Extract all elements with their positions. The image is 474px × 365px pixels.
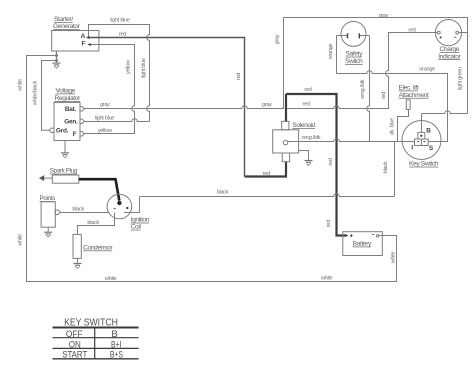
svg-text:red: red — [236, 73, 242, 80]
svg-text:dk. blue: dk. blue — [390, 118, 396, 135]
svg-text:Starter/: Starter/ — [54, 16, 73, 23]
svg-text:gray: gray — [100, 102, 110, 108]
svg-text:F: F — [82, 40, 86, 47]
svg-text:white: white — [17, 234, 23, 247]
charge indicator — [435, 19, 467, 60]
svg-text:white: white — [390, 252, 396, 265]
wire black coil plus riser — [124, 197, 140, 213]
svg-text:B: B — [426, 127, 431, 134]
svg-text:light green: light green — [458, 67, 464, 90]
elec lift attachment — [399, 85, 429, 110]
key switch table — [53, 317, 139, 360]
ground SG — [53, 63, 61, 68]
wire white left loop to battery minus — [27, 56, 397, 282]
svg-text:Safety: Safety — [346, 51, 364, 58]
wire SG ground stub — [56, 51, 58, 63]
wire spark plug thick black — [79, 179, 120, 200]
svg-text:white: white — [104, 276, 117, 282]
svg-text:Points: Points — [40, 195, 56, 202]
svg-text:white: white — [18, 79, 24, 92]
wire F yellow — [84, 45, 135, 134]
wire light blue top loop — [89, 25, 150, 122]
wire white/black to VR Grd — [42, 61, 57, 131]
solenoid — [273, 121, 316, 161]
svg-text:gray: gray — [262, 102, 272, 108]
svg-text:white/black: white/black — [33, 80, 39, 106]
points — [40, 195, 61, 227]
terminal tag Grd — [49, 128, 54, 132]
svg-text:F: F — [73, 131, 77, 138]
battery — [343, 232, 383, 256]
svg-text:Battery: Battery — [353, 241, 372, 248]
node junction white — [55, 54, 58, 57]
svg-text:red: red — [408, 27, 415, 33]
voltage regulator VR — [54, 88, 81, 141]
safety switch — [337, 21, 370, 65]
terminal arrow A — [86, 36, 89, 39]
wire orange safety left side — [336, 36, 338, 74]
wire red from A — [89, 38, 245, 177]
svg-text:orng./blk: orng./blk — [302, 135, 321, 141]
svg-text:Bat.: Bat. — [65, 106, 77, 113]
svg-text:black: black — [87, 220, 99, 226]
svg-text:START: START — [62, 350, 87, 361]
wire orange bottom to key switch S — [337, 71, 448, 142]
wire black points to coil — [61, 212, 110, 214]
wire black coil to condenser — [78, 213, 115, 235]
svg-text:light blue: light blue — [110, 18, 130, 24]
svg-text:Indicator: Indicator — [438, 53, 461, 60]
wire red thick battery feed — [286, 94, 346, 236]
ground condenser — [77, 259, 79, 263]
terminal arrow battery plus — [345, 234, 348, 237]
svg-text:gray: gray — [275, 34, 281, 44]
svg-text:red: red — [381, 92, 387, 99]
wire light blue to Gen with hop over yellow — [84, 119, 150, 122]
ground solenoid — [299, 151, 309, 161]
svg-text:Condensor: Condensor — [83, 245, 113, 252]
svg-text:yellow: yellow — [98, 128, 113, 134]
svg-text:gray: gray — [379, 13, 389, 19]
svg-text:Attachment: Attachment — [399, 92, 429, 99]
wire orange/black safety right down — [367, 36, 370, 142]
wire red solenoid to charge indicator — [287, 33, 437, 109]
svg-text:Voltage: Voltage — [56, 88, 76, 95]
wire orange/black solenoid to key switch I — [288, 139, 415, 142]
svg-text:light blue: light blue — [141, 58, 147, 78]
svg-text:A: A — [81, 33, 86, 40]
terminal tag Gen — [80, 119, 84, 123]
svg-text:Gen.: Gen. — [64, 119, 78, 126]
svg-text:yellow: yellow — [126, 59, 132, 74]
terminal tag F — [80, 132, 84, 136]
svg-text:red: red — [326, 220, 332, 227]
svg-text:OFF: OFF — [66, 329, 83, 340]
starter/generator SG — [52, 16, 99, 51]
ignition coil — [107, 194, 150, 231]
svg-text:red: red — [303, 102, 310, 108]
svg-text:Generator: Generator — [53, 23, 81, 30]
svg-text:Ignition: Ignition — [131, 217, 150, 224]
svg-text:Solenoid: Solenoid — [292, 122, 316, 129]
svg-text:red: red — [304, 87, 311, 93]
svg-text:red: red — [263, 171, 270, 177]
node junction white/black — [55, 59, 58, 62]
wire red thick to solenoid bottom — [245, 162, 287, 177]
svg-text:white: white — [320, 275, 333, 281]
svg-text:black: black — [72, 207, 84, 213]
condenser — [73, 234, 113, 258]
svg-text:Grd.: Grd. — [56, 128, 69, 135]
svg-text:black: black — [217, 190, 229, 196]
ground points — [47, 227, 49, 232]
wire black key switch to coil — [140, 142, 395, 197]
svg-text:Coil: Coil — [131, 224, 142, 231]
terminal arrow F — [87, 43, 90, 46]
svg-text:light blue: light blue — [95, 115, 115, 121]
svg-text:B: B — [111, 329, 117, 340]
svg-text:red: red — [328, 158, 334, 165]
svg-text:Regulator: Regulator — [55, 95, 82, 102]
svg-text:black: black — [383, 161, 389, 173]
wire gray bus VR Bat to top right — [84, 18, 467, 114]
svg-text:B+S: B+S — [110, 350, 123, 361]
svg-text:orng./blk: orng./blk — [360, 79, 366, 98]
svg-text:Switch: Switch — [345, 58, 363, 65]
key switch — [402, 121, 441, 168]
svg-text:Elec. lift: Elec. lift — [399, 85, 419, 92]
wire light green to key switch B — [422, 111, 468, 133]
svg-text:orange: orange — [419, 66, 435, 72]
svg-text:Charge: Charge — [440, 46, 460, 53]
terminal tag Bat — [80, 107, 84, 111]
svg-text:Key Switch: Key Switch — [409, 161, 439, 168]
svg-text:red: red — [119, 32, 126, 38]
wire dk blue to key switch I — [398, 110, 409, 142]
spark plug — [39, 168, 79, 184]
ground VR — [64, 141, 66, 153]
svg-text:Spark Plug: Spark Plug — [50, 168, 78, 175]
svg-text:orange: orange — [328, 44, 334, 60]
